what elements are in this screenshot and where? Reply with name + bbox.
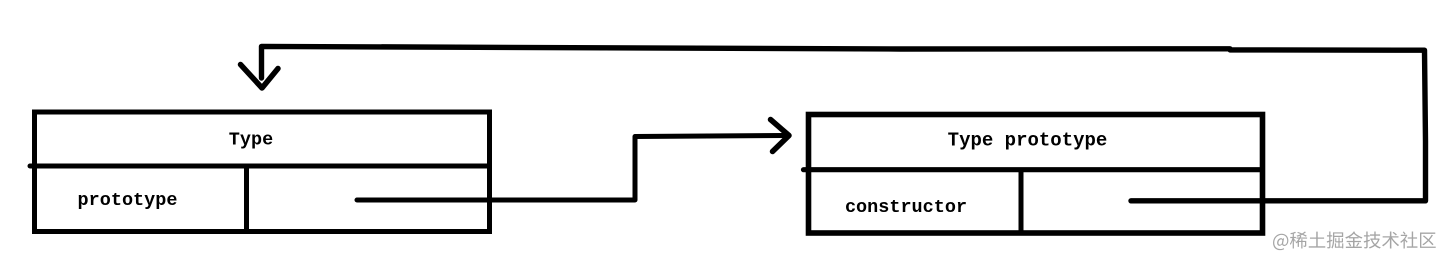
box Type prototype: row divider bbox=[804, 167, 1260, 172]
box Type: row divider bbox=[30, 164, 488, 169]
wire prototype pointer: horizontal then up then right bbox=[357, 136, 784, 201]
box Type: cell divider vertical bbox=[244, 166, 249, 231]
svg-text:Type prototype: Type prototype bbox=[948, 130, 1108, 152]
box Type: outer rectangle bbox=[35, 112, 490, 232]
box Type prototype: outer rectangle bbox=[809, 115, 1263, 234]
arrowhead right at Type prototype bbox=[771, 120, 790, 152]
svg-text:constructor: constructor bbox=[845, 197, 967, 218]
arrowhead down at Type bbox=[241, 65, 279, 89]
svg-text:Type: Type bbox=[229, 130, 273, 151]
wire constructor pointer: right, up, long left, down bbox=[262, 46, 1426, 200]
watermark @稀土掘金技术社区 bbox=[1273, 231, 1436, 250]
svg-text:prototype: prototype bbox=[78, 190, 178, 211]
box Type prototype: cell divider vertical bbox=[1019, 170, 1024, 233]
